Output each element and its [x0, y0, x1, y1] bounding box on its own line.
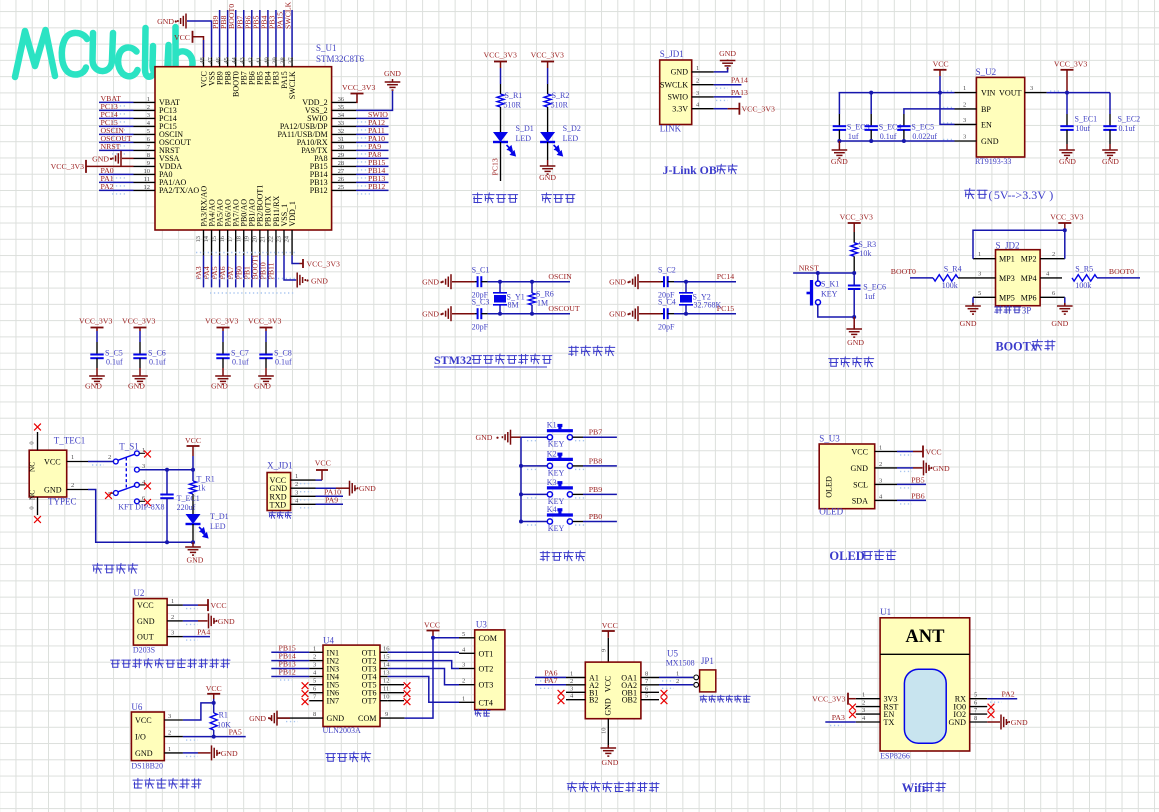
selection dots bottom pins [196, 252, 295, 254]
wire net SWIO [356, 117, 389, 119]
svg-text:GND: GND [135, 749, 153, 758]
svg-text:15: 15 [211, 236, 218, 243]
svg-text:OLED: OLED [819, 507, 843, 517]
svg-text:VCC_3V3: VCC_3V3 [840, 213, 873, 222]
antenna separator line [880, 653, 970, 655]
svg-text:GND: GND [137, 617, 155, 626]
wire BOOT0 left [910, 277, 933, 279]
svg-text:PA5: PA5 [229, 728, 242, 737]
svg-text:S_U3: S_U3 [819, 434, 840, 444]
pin 20 PB2/BOOT1 bottom [259, 230, 261, 255]
svg-text:1: 1 [295, 473, 298, 480]
svg-text:1k: 1k [198, 484, 206, 493]
svg-text:STM32: STM32 [434, 353, 472, 367]
pin 7 OA2 U5 [641, 684, 659, 686]
wire PC14 row [674, 281, 736, 283]
noERC OT6 [388, 692, 404, 694]
wire net PA12 [356, 125, 389, 127]
noERC B1 B2 [558, 690, 565, 697]
ground symbol top right [385, 79, 401, 90]
pin 9 VDDA [134, 165, 156, 167]
pin 37 SWCLK top [291, 57, 293, 66]
svg-text:10: 10 [601, 728, 608, 735]
pin 43 PB7 top [243, 57, 245, 66]
pin 36 VDD_2 [332, 101, 356, 103]
svg-text:PA2: PA2 [1002, 690, 1015, 699]
svg-text:NRST: NRST [799, 263, 819, 272]
svg-text:VCC: VCC [206, 684, 222, 693]
pin 21 PB10/TX bottom [267, 230, 269, 255]
pin 6 OB1 U5 [641, 691, 659, 693]
svg-text:VCC: VCC [933, 60, 949, 69]
svg-text:45: 45 [223, 57, 230, 64]
svg-text:S_EC6: S_EC6 [863, 283, 886, 292]
svg-text:3.3V: 3.3V [672, 105, 688, 114]
svg-text:VCC: VCC [44, 458, 61, 467]
svg-text:VCC: VCC [174, 33, 190, 42]
svg-text:16: 16 [383, 645, 390, 652]
svg-text:GND: GND [211, 382, 228, 391]
wire key bus vertical [520, 437, 522, 521]
title power circuit [93, 563, 103, 573]
ground symbol top VSS [178, 14, 186, 29]
pin 3 IN3 U4 [309, 668, 323, 670]
svg-text:U6: U6 [131, 702, 142, 712]
ground VSS_2 pin35 [356, 91, 393, 110]
capacitor S_EC3 1uf [838, 93, 840, 114]
svg-text:43: 43 [239, 57, 246, 64]
resistor S_R3 10k [851, 243, 858, 257]
pin 1 VCC U2 [167, 604, 183, 606]
svg-text:GND: GND [609, 310, 626, 319]
svg-text:13: 13 [195, 236, 202, 243]
svg-text:OLED: OLED [824, 476, 833, 498]
svg-text:12: 12 [383, 678, 390, 685]
wire OA1 to JP1 [659, 676, 693, 678]
ground VSSA pin8 [122, 157, 134, 159]
svg-text:VCC_3V3: VCC_3V3 [531, 51, 564, 60]
svg-text:5: 5 [645, 693, 648, 700]
svg-text:3: 3 [862, 707, 865, 714]
svg-text:STM32C8T6: STM32C8T6 [316, 54, 365, 64]
pin 3 EN S_U2 [955, 123, 977, 125]
svg-text:PB0: PB0 [589, 512, 603, 521]
wire net PA7 bottom [235, 255, 237, 287]
title reset circuit [829, 359, 839, 367]
svg-text:8M: 8M [508, 301, 519, 310]
wire key row K2 [521, 465, 547, 467]
pin 2 GND T_TEC1 [67, 489, 88, 491]
svg-text:VIN: VIN [981, 89, 996, 98]
pin 40 PB4 top [267, 57, 269, 66]
wire net PA13 [714, 96, 742, 98]
ground S_C3 [443, 306, 451, 321]
svg-text:MP2: MP2 [1021, 255, 1037, 264]
wire net PA9 TXD [316, 503, 344, 505]
wire net PB7 top [243, 10, 245, 57]
svg-text:LED: LED [210, 522, 226, 531]
svg-text:BOOTx: BOOTx [996, 340, 1038, 354]
svg-text:PA9: PA9 [325, 495, 338, 504]
svg-text:8: 8 [645, 670, 648, 677]
svg-text:K2: K2 [547, 449, 557, 458]
svg-text:S_C7: S_C7 [231, 349, 249, 358]
svg-text:9: 9 [601, 649, 608, 652]
svg-text:S_C8: S_C8 [274, 349, 292, 358]
wire net PB12 [356, 189, 389, 191]
wire net BOOT0 top [235, 10, 237, 57]
capacitor S_EC2 0.1uf [1109, 93, 1111, 114]
resistor S_R1 510R [497, 94, 504, 107]
svg-text:20pF: 20pF [472, 323, 489, 332]
title programmable LED [473, 193, 483, 203]
pin 24 VDD_1 bottom [291, 230, 293, 255]
ground VSS top pin47 [187, 21, 212, 57]
wire VCC pin9 U5 [607, 638, 609, 662]
pin 19 PB1/AO bottom [251, 230, 253, 255]
svg-text:PB12: PB12 [368, 182, 385, 191]
svg-text:RT9193-33: RT9193-33 [975, 157, 1011, 166]
svg-text:K1: K1 [547, 421, 557, 430]
svg-text:NC: NC [29, 490, 37, 500]
svg-text:NRST: NRST [101, 142, 121, 151]
wire OT4 to U3 [388, 677, 459, 703]
wire net PA15 top [283, 10, 285, 57]
wire net PA6 bottom [227, 255, 229, 287]
noERC OT7 [388, 700, 404, 702]
svg-text:4: 4 [879, 493, 883, 500]
svg-text:GND: GND [254, 382, 271, 391]
svg-text:1: 1 [147, 96, 150, 103]
pin 10 OT7 U4 [380, 700, 388, 702]
svg-text:48: 48 [199, 57, 206, 64]
svg-text:14: 14 [383, 662, 390, 669]
pin 3 VCC U6 [164, 719, 183, 721]
svg-text:VCC_3V3: VCC_3V3 [51, 162, 84, 171]
svg-text:1: 1 [696, 65, 699, 72]
pin 31 PA10/RX [332, 141, 356, 143]
wire net PA4 bottom [211, 255, 213, 287]
svg-text:0.1uf: 0.1uf [275, 358, 292, 367]
svg-text:GND: GND [671, 68, 689, 77]
svg-text:S_EC2: S_EC2 [1118, 115, 1141, 124]
wire net PB14 [356, 173, 389, 175]
svg-text:GND: GND [92, 154, 109, 163]
pin 4 IN4 U4 [309, 676, 323, 678]
svg-text:8: 8 [313, 711, 316, 718]
svg-text:VCC_3V3: VCC_3V3 [122, 317, 155, 326]
svg-text:4: 4 [1046, 270, 1050, 277]
pin 3 SCL S_U3 [875, 483, 897, 485]
svg-text:19: 19 [243, 236, 250, 243]
svg-text:14: 14 [203, 235, 210, 242]
pin 3 GND S_U2 [955, 140, 977, 142]
pin 3 PC14 [134, 117, 156, 119]
wire net PB13 [356, 181, 389, 183]
pin 25 PB12 [332, 189, 356, 191]
svg-text:GND: GND [128, 382, 145, 391]
pin 6 OSCOUT [134, 141, 156, 143]
svg-text:GND: GND [604, 698, 613, 716]
svg-text:GND: GND [981, 137, 999, 146]
wire net PC13 [99, 109, 134, 111]
svg-text:EN: EN [981, 120, 992, 129]
svg-text:1: 1 [570, 670, 573, 677]
capacitor T_EC1 220uf [166, 470, 168, 494]
svg-text:3: 3 [1030, 85, 1033, 92]
label download port [269, 512, 276, 519]
ground power LED [547, 142, 549, 160]
svg-text:S_R6: S_R6 [536, 290, 554, 299]
wire key to bottom [818, 305, 854, 317]
svg-text:4: 4 [862, 715, 866, 722]
wire net PA5 I/O [183, 736, 246, 738]
pin 11 OT6 U4 [380, 692, 388, 694]
svg-text:8: 8 [147, 152, 150, 159]
title temperature module [133, 778, 143, 788]
wire net PA2 RX [987, 698, 1017, 700]
pin 8 OA1 U5 [641, 676, 659, 678]
svg-text:PB11: PB11 [266, 262, 275, 279]
svg-text:15: 15 [383, 654, 390, 661]
pin 2 I/O U6 [164, 736, 183, 738]
noERC RST EN wifi [849, 704, 856, 711]
MCUclub logo [15, 27, 193, 77]
pin 5 OB2 U5 [641, 699, 659, 701]
pin 6 IN6 U4 [309, 692, 323, 694]
svg-text:5: 5 [978, 290, 981, 297]
svg-text:VCC_3V3: VCC_3V3 [248, 317, 281, 326]
svg-text:GND: GND [422, 278, 439, 287]
svg-text:2: 2 [696, 78, 699, 85]
svg-text:3: 3 [963, 117, 966, 124]
wire net PA10 RXD [316, 495, 344, 497]
svg-text:33: 33 [338, 120, 345, 127]
svg-text:TYPEC: TYPEC [48, 497, 77, 507]
power VCC top pin48 [193, 37, 204, 57]
svg-text:S_R2: S_R2 [552, 91, 570, 100]
svg-text:510R: 510R [551, 101, 569, 110]
svg-text:VCC_3V3: VCC_3V3 [742, 105, 775, 114]
pin 1 GND U6 [164, 752, 183, 754]
ground S_U2 input caps [838, 141, 840, 148]
svg-text:0.022uf: 0.022uf [912, 132, 937, 141]
svg-text:S_R3: S_R3 [858, 240, 876, 249]
svg-text:B2: B2 [589, 696, 598, 705]
svg-text:34: 34 [338, 112, 345, 119]
svg-text:3: 3 [462, 662, 465, 669]
resistor T_R1 1k [192, 470, 194, 481]
svg-text:MP5: MP5 [999, 293, 1015, 302]
wire net PA5 bottom [219, 255, 221, 287]
svg-text:2: 2 [462, 678, 465, 685]
wire net PB15 [271, 651, 309, 653]
resistor S_R5 100k [1072, 275, 1097, 281]
svg-text:18: 18 [235, 236, 242, 243]
svg-text:SCL: SCL [853, 480, 868, 489]
svg-text:VCC_3V3: VCC_3V3 [1050, 213, 1083, 222]
title PIR module [111, 660, 120, 667]
svg-text:S_C2: S_C2 [658, 266, 676, 275]
pin 3 EN U1 [856, 713, 880, 715]
wire net PB14 [271, 660, 309, 662]
svg-text:GND: GND [847, 338, 864, 347]
svg-text:31: 31 [338, 136, 345, 143]
svg-text:OLED: OLED [829, 549, 864, 563]
wire net PB3 top [275, 10, 277, 57]
svg-text:VCC_3V3: VCC_3V3 [79, 317, 112, 326]
svg-text:SWIO: SWIO [668, 93, 689, 102]
svg-text:): ) [1049, 188, 1053, 202]
pin 4 MP4 [1040, 277, 1062, 279]
wire OA2 to JP1 [659, 684, 693, 686]
svg-text:PB9: PB9 [589, 485, 603, 494]
pin 2 A2 U5 [566, 684, 585, 686]
switch K1 KEY [547, 435, 552, 440]
pin 12 OT5 U4 [380, 684, 388, 686]
svg-text:4: 4 [462, 646, 466, 653]
svg-text:PB12: PB12 [279, 668, 296, 677]
wire OSCOUT row [488, 313, 570, 315]
pin 1 VBAT [134, 101, 156, 103]
pin 16 PA6/AO bottom [227, 230, 229, 255]
pin 26 PB13 [332, 181, 356, 183]
svg-text:37: 37 [288, 56, 295, 63]
pin 7 NRST [134, 149, 156, 151]
svg-text:X_JD1: X_JD1 [267, 461, 293, 471]
svg-text:MP4: MP4 [1021, 274, 1037, 283]
svg-text:KEY: KEY [548, 468, 565, 477]
svg-text:10: 10 [144, 168, 151, 175]
power VCC_3V3 VDD_1 pin24 [292, 255, 299, 263]
label socket [475, 709, 482, 716]
pin 29 PA8 [332, 157, 356, 159]
pin 30 PA9/TX [332, 149, 356, 151]
svg-text:VCC_3V3: VCC_3V3 [205, 317, 238, 326]
svg-text:I/O: I/O [135, 733, 146, 742]
svg-text:3: 3 [147, 112, 150, 119]
pin 23 VSS_1 bottom [283, 230, 285, 255]
pin 1 VCC S_U3 [875, 451, 897, 453]
wire key K2 to net PB8 [573, 465, 584, 467]
svg-text:1: 1 [168, 746, 171, 753]
svg-text:30: 30 [338, 144, 345, 151]
ground reset [853, 317, 855, 330]
svg-text:2: 2 [71, 482, 74, 489]
svg-text:U1: U1 [880, 607, 891, 617]
power VCC_3V3 wifi [848, 698, 856, 700]
svg-text:1: 1 [963, 85, 966, 92]
svg-text:11: 11 [383, 686, 389, 693]
svg-text:S_U2: S_U2 [976, 67, 997, 77]
ground S_C1 [443, 274, 451, 289]
wire net BOOT1 bottom [259, 255, 261, 287]
svg-text:S_R1: S_R1 [505, 91, 523, 100]
svg-text:KEY: KEY [548, 524, 565, 533]
svg-text:VCC: VCC [424, 621, 440, 630]
pin 35 VSS_2 [332, 109, 356, 111]
wire net PC15 [99, 125, 134, 127]
svg-text:GND: GND [602, 758, 619, 767]
ground U4 [277, 717, 290, 719]
pin 0 top T_TEC1 [37, 432, 39, 450]
wire net PA6 A1 [535, 676, 566, 678]
svg-text:LED: LED [563, 134, 579, 143]
svg-text:BOOT0: BOOT0 [891, 267, 916, 276]
svg-text:6: 6 [1052, 290, 1056, 297]
svg-text:36: 36 [338, 96, 345, 103]
svg-text:PA13: PA13 [731, 88, 748, 97]
wire net PA2 [99, 189, 134, 191]
svg-text:VCC_3V3: VCC_3V3 [1054, 60, 1087, 69]
svg-text:1: 1 [462, 695, 465, 702]
svg-text:220uf: 220uf [177, 503, 196, 512]
wire net PB0 bottom [243, 255, 245, 287]
wire OT1 to U3 [388, 651, 459, 653]
capacitor S_EC4 0.1uf [870, 93, 872, 114]
pin 2 GND X_JD1 [291, 487, 316, 489]
svg-text:S_D2: S_D2 [563, 124, 581, 133]
svg-text:BOOT0: BOOT0 [1109, 267, 1134, 276]
switch K3 KEY [547, 492, 552, 497]
svg-text:ESP8266: ESP8266 [880, 752, 910, 761]
pin 5 IN5 U4 [309, 684, 323, 686]
wire net SWCLK top [291, 10, 293, 57]
svg-text:TX: TX [884, 718, 895, 727]
svg-text:10k: 10k [859, 249, 871, 258]
wire net PB11 bottom [275, 255, 277, 287]
svg-text:42: 42 [247, 57, 254, 63]
wire key K3 to net PB9 [573, 493, 584, 495]
svg-text:PA14: PA14 [731, 76, 748, 85]
svg-text:SWCLK: SWCLK [660, 81, 688, 90]
svg-text:27: 27 [338, 168, 345, 175]
svg-text:PA3: PA3 [832, 713, 845, 722]
svg-text:PA7: PA7 [544, 676, 557, 685]
pin 46 PB9 top [219, 57, 221, 66]
svg-text:VCC: VCC [602, 621, 618, 630]
wire net PA0 [99, 173, 134, 175]
ground MP5 [972, 297, 974, 305]
pin 7 IN7 U4 [309, 700, 323, 702]
switch K4 KEY [547, 519, 552, 524]
pin 2 IN2 U4 [309, 660, 323, 662]
wire net PA11 [356, 133, 389, 135]
svg-text:VCC: VCC [185, 436, 201, 445]
wire switch pin3 to VCC rail [139, 469, 193, 471]
svg-text:5: 5 [147, 128, 150, 135]
svg-text:KEY: KEY [548, 440, 565, 449]
wire U6 GND [183, 752, 198, 754]
wire VIN rail [939, 76, 941, 93]
wire net PB5 top [259, 10, 261, 57]
pin 47 VSS top [211, 57, 213, 66]
svg-text:47: 47 [207, 56, 214, 63]
ground wifi [987, 721, 1000, 723]
svg-text:6: 6 [974, 700, 978, 707]
wire net PB10 bottom [267, 255, 269, 287]
svg-text:GND: GND [831, 157, 848, 166]
svg-text:OSCIN: OSCIN [548, 272, 572, 281]
svg-text:2: 2 [168, 730, 171, 737]
svg-text:4: 4 [295, 497, 299, 504]
pin 39 PB3 top [275, 57, 277, 66]
ground key bus [511, 436, 522, 438]
svg-text:22: 22 [267, 236, 274, 243]
wire net PA9 [356, 149, 389, 151]
pin 2 SWCLK S_JD1 [692, 84, 714, 86]
pin 3 B1 U5 [566, 691, 585, 693]
